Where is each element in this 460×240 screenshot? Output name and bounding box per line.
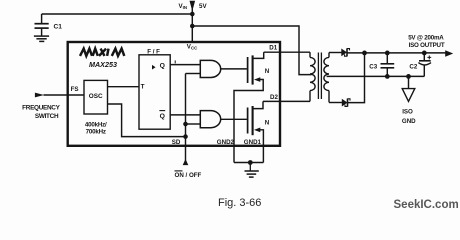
svg-text:Fig. 3-66: Fig. 3-66	[218, 197, 261, 209]
svg-text:700kHz: 700kHz	[86, 129, 106, 136]
wire AND2 to Q2 gate	[221, 118, 247, 120]
svg-text:5V: 5V	[199, 3, 207, 10]
frequency switch input arrow	[35, 93, 44, 98]
wire	[191, 9, 193, 42]
svg-text:Q: Q	[160, 63, 165, 70]
node	[385, 74, 390, 79]
svg-text:C3: C3	[369, 64, 377, 71]
wire D1 to transformer	[264, 51, 310, 53]
wire	[44, 94, 85, 96]
svg-text:C1: C1	[54, 24, 63, 31]
svg-text:VCC: VCC	[187, 43, 198, 50]
shutdown pin ON/OFF arrow	[185, 147, 187, 161]
node	[422, 51, 427, 56]
transistor Q1	[234, 52, 264, 162]
transistor Q2	[248, 101, 264, 162]
capacitor C3	[381, 53, 395, 77]
svg-text:GND: GND	[402, 118, 416, 125]
svg-text:C2: C2	[409, 63, 417, 70]
svg-text:F / F: F / F	[147, 49, 160, 56]
iso ground	[402, 76, 415, 101]
MAXIM logo	[80, 49, 124, 56]
svg-text:FREQUENCY: FREQUENCY	[22, 105, 60, 112]
ground	[245, 163, 259, 178]
wire secondary bottom	[329, 102, 342, 104]
wire AND1 to Q1 gate	[221, 68, 247, 70]
svg-text:Q: Q	[160, 113, 165, 120]
svg-text:D2: D2	[270, 94, 278, 101]
wire D2 to transformer	[263, 100, 310, 102]
diode D3 schottky	[341, 48, 349, 56]
svg-text:GND1: GND1	[244, 139, 262, 146]
clock edge mark	[152, 65, 156, 70]
svg-text:MAX253: MAX253	[89, 60, 117, 69]
wire GND pins	[234, 162, 263, 164]
svg-text:VIN: VIN	[179, 3, 188, 10]
wire	[42, 13, 193, 15]
wire Qbar to AND2	[170, 114, 200, 116]
wire diode D4 to top rail	[348, 53, 365, 103]
SD net	[185, 74, 187, 147]
wire center rail	[327, 75, 425, 77]
svg-text:T: T	[141, 84, 145, 91]
svg-text:N: N	[265, 119, 270, 126]
and gate U2A	[200, 60, 220, 77]
svg-text:ON / OFF: ON / OFF	[175, 172, 202, 179]
svg-text:N: N	[265, 68, 270, 75]
node	[183, 134, 188, 139]
flip-flop F/F	[139, 55, 170, 129]
transformer T1 secondary	[324, 53, 329, 103]
svg-text:400kHz/: 400kHz/	[85, 121, 107, 128]
wire OSC to T	[108, 86, 140, 88]
transformer core	[317, 53, 319, 100]
wire OSC to SD net	[108, 104, 186, 137]
node	[190, 12, 195, 17]
IC U1 MAX253	[68, 42, 280, 146]
node	[385, 51, 390, 56]
diode D4 schottky	[342, 99, 350, 107]
wire	[192, 26, 311, 75]
ground	[34, 36, 49, 41]
svg-text:GND2: GND2	[217, 139, 235, 146]
capacitor C2	[418, 53, 431, 77]
svg-text:OSC: OSC	[89, 93, 103, 100]
svg-text:FS: FS	[71, 86, 79, 93]
node	[248, 160, 253, 165]
wire top rail	[347, 52, 446, 54]
node	[362, 51, 367, 56]
wire secondary top	[329, 52, 342, 54]
transformer T1 primary	[310, 52, 315, 101]
output arrow	[445, 50, 453, 57]
node	[190, 24, 195, 29]
node	[406, 74, 411, 79]
power VIN arrow	[190, 1, 196, 11]
wire Q to AND1	[170, 64, 200, 66]
and gate U2B	[200, 111, 220, 128]
oscillator OSC	[84, 80, 108, 114]
svg-text:5V @ 200mA: 5V @ 200mA	[408, 35, 444, 42]
artifact tick	[174, 60, 176, 63]
svg-text:D1: D1	[269, 45, 277, 52]
svg-text:ISO OUTPUT: ISO OUTPUT	[409, 42, 445, 49]
svg-text:SWITCH: SWITCH	[35, 113, 59, 120]
node	[183, 122, 188, 127]
svg-text:SD: SD	[172, 139, 181, 146]
svg-text:ISO: ISO	[402, 109, 413, 116]
capacitor C1	[35, 14, 49, 36]
svg-text:SeekIC.com: SeekIC.com	[394, 199, 459, 211]
